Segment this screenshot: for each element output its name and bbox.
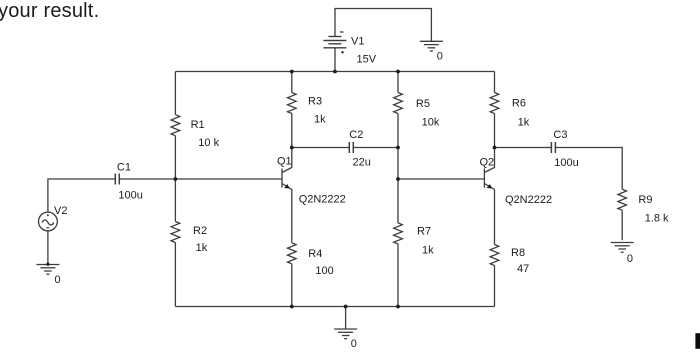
svg-text:0: 0 [437, 51, 443, 63]
svg-text:Q2: Q2 [480, 157, 495, 169]
svg-text:47: 47 [517, 263, 529, 275]
svg-text:10k: 10k [422, 117, 440, 129]
svg-text:C3: C3 [553, 129, 567, 141]
svg-text:10 k: 10 k [198, 137, 219, 149]
svg-text:R8: R8 [511, 247, 525, 259]
svg-text:15V: 15V [357, 54, 377, 66]
svg-text:100u: 100u [554, 157, 578, 169]
svg-text:R9: R9 [638, 194, 652, 206]
svg-text:R6: R6 [512, 97, 526, 109]
svg-text:R4: R4 [308, 248, 322, 260]
svg-text:C2: C2 [349, 129, 363, 141]
svg-text:R7: R7 [417, 226, 431, 238]
svg-text:100u: 100u [118, 189, 142, 201]
svg-text:1k: 1k [518, 117, 530, 129]
svg-text:1k: 1k [314, 114, 326, 126]
svg-text:R1: R1 [191, 119, 205, 131]
svg-text:1k: 1k [196, 242, 208, 254]
svg-text:1.8 k: 1.8 k [645, 213, 669, 225]
svg-text:R5: R5 [416, 98, 430, 110]
svg-text:your result.: your result. [0, 0, 99, 22]
svg-text:Q2N2222: Q2N2222 [505, 194, 552, 206]
svg-text:R2: R2 [193, 225, 207, 237]
svg-text:Q1: Q1 [277, 156, 292, 168]
svg-text:V2: V2 [54, 205, 67, 217]
svg-text:0: 0 [55, 274, 61, 286]
svg-text:22u: 22u [353, 157, 371, 169]
svg-text:R3: R3 [308, 96, 322, 108]
svg-text:1k: 1k [422, 245, 434, 257]
svg-text:C1: C1 [117, 161, 131, 173]
svg-text:V1: V1 [351, 36, 364, 48]
svg-text:0: 0 [351, 338, 357, 350]
svg-text:Q2N2222: Q2N2222 [299, 194, 346, 206]
svg-text:0: 0 [627, 253, 633, 265]
svg-text:100: 100 [315, 265, 333, 277]
